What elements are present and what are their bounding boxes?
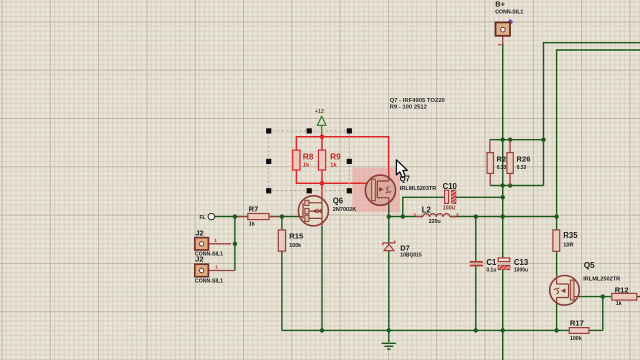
svg-text:1k: 1k bbox=[330, 162, 337, 168]
mouse cursor bbox=[396, 160, 407, 178]
wire Q6 source to ground rail bbox=[321, 226, 323, 331]
svg-text:1k: 1k bbox=[303, 162, 310, 168]
wire FL to Q6 gate bbox=[215, 216, 299, 218]
svg-text:R7: R7 bbox=[249, 205, 259, 214]
selected net (red): +12 rail, R8/R9 parallel, Q7 gate feed, Q6 drain feed bbox=[296, 137, 388, 194]
svg-text:J2: J2 bbox=[195, 255, 203, 264]
svg-text:1k: 1k bbox=[616, 301, 622, 307]
svg-text:R2: R2 bbox=[497, 154, 507, 163]
connector J2 (lower duplicate) bbox=[195, 255, 235, 285]
wire outer bracket to right edge bbox=[544, 43, 640, 186]
wire Q5 gate to R12 and R17 bbox=[579, 297, 640, 331]
resistor R26 bbox=[507, 140, 531, 186]
node FL bbox=[200, 213, 215, 221]
annotation note text bbox=[390, 98, 446, 111]
svg-text:Q5: Q5 bbox=[584, 261, 595, 270]
junction dots (green) bbox=[233, 138, 605, 333]
transistor Q7 IRLML5203TR (tagged) bbox=[365, 173, 436, 205]
resistor R2 bbox=[487, 140, 506, 186]
capacitor C13 bbox=[498, 258, 529, 273]
svg-text:FL: FL bbox=[200, 215, 206, 221]
capacitor C10 bbox=[443, 182, 458, 211]
resistor R8 bbox=[293, 150, 314, 170]
svg-text:0.33: 0.33 bbox=[517, 165, 527, 171]
selection handles and dashed marquee around R8/R9 bbox=[266, 128, 352, 193]
svg-text:R35: R35 bbox=[563, 231, 578, 240]
wire Q5 source to ground rail bbox=[556, 303, 558, 330]
junction dot (red) bottom bbox=[320, 181, 325, 186]
power terminal +12 bbox=[315, 109, 326, 135]
svg-text:1k: 1k bbox=[249, 222, 255, 228]
svg-text:10R: 10R bbox=[563, 243, 573, 249]
resistor R9 bbox=[318, 150, 341, 170]
resistor R15 bbox=[278, 230, 304, 251]
wire inner bracket to right edge bbox=[557, 50, 640, 230]
svg-text:2N7002K: 2N7002K bbox=[333, 207, 357, 213]
svg-text:+12: +12 bbox=[315, 109, 324, 115]
svg-text:Q6: Q6 bbox=[333, 196, 344, 205]
svg-text:220u: 220u bbox=[429, 219, 441, 225]
svg-text:C1: C1 bbox=[486, 258, 497, 267]
wire R2/R26 top rail bbox=[490, 139, 544, 141]
svg-text:1: 1 bbox=[214, 238, 217, 244]
capacitor C1 bbox=[470, 258, 497, 273]
transistor Q5 IRLML2502TR bbox=[550, 261, 621, 305]
svg-text:0.1u: 0.1u bbox=[486, 267, 496, 273]
wire R2/R26 bottom rail bbox=[490, 185, 544, 187]
wire LC node horizontal bbox=[389, 216, 557, 218]
svg-text:R17: R17 bbox=[570, 319, 584, 328]
svg-text:IRLML2502TR: IRLML2502TR bbox=[583, 277, 620, 283]
wire R35 to Q5 drain bbox=[556, 251, 558, 275]
connector J2 (upper) bbox=[195, 229, 231, 258]
wire ground rail bbox=[282, 329, 603, 331]
svg-text:1: 1 bbox=[215, 265, 218, 271]
resistor R7 bbox=[238, 205, 279, 228]
svg-text:L2: L2 bbox=[422, 205, 432, 214]
svg-text:CONN-SIL1: CONN-SIL1 bbox=[195, 279, 223, 285]
resistor R35 bbox=[553, 230, 578, 251]
wire R15 branch to ground rail bbox=[281, 217, 283, 331]
svg-text:R12: R12 bbox=[615, 286, 629, 295]
junction dot (red) top bbox=[320, 134, 325, 139]
ground bbox=[382, 330, 396, 349]
wire C10 bypass bbox=[403, 197, 503, 216]
svg-text:100k: 100k bbox=[570, 336, 582, 342]
svg-text:R26: R26 bbox=[517, 154, 531, 163]
svg-text:100U: 100U bbox=[443, 205, 456, 211]
svg-text:IRLML5203TR: IRLML5203TR bbox=[400, 186, 436, 192]
connector B+ CONN-SIL1 bbox=[495, 0, 523, 45]
svg-text:100k: 100k bbox=[289, 243, 301, 249]
wire B+ net vertical down through C13 to bottom edge bbox=[502, 140, 504, 360]
wire J2 vertical bbox=[234, 217, 236, 271]
svg-text:J2: J2 bbox=[195, 229, 203, 238]
transistor Q6 2N7002K bbox=[298, 194, 356, 226]
svg-text:R9 - 100 2512: R9 - 100 2512 bbox=[390, 105, 428, 111]
svg-text:1000u: 1000u bbox=[514, 267, 528, 273]
resistor R17 bbox=[569, 319, 589, 342]
svg-text:R9: R9 bbox=[330, 152, 341, 162]
wire C1 vertical bbox=[475, 217, 477, 331]
inductor L2 bbox=[414, 205, 460, 225]
wire Q7 drain / D7 / ground rail vertical bbox=[388, 204, 390, 331]
svg-text:B+: B+ bbox=[495, 0, 505, 9]
svg-text:10BQ015: 10BQ015 bbox=[400, 252, 422, 258]
svg-text:C13: C13 bbox=[514, 258, 529, 267]
svg-text:0.33: 0.33 bbox=[497, 165, 507, 171]
svg-text:CONN-SIL1: CONN-SIL1 bbox=[495, 9, 523, 15]
wire B+ vertical to R2/R26 rail bbox=[502, 44, 504, 140]
svg-text:R15: R15 bbox=[289, 231, 304, 240]
diode D7 10BQ015 bbox=[383, 241, 422, 259]
svg-text:Q7 - IRF4905 TO220: Q7 - IRF4905 TO220 bbox=[390, 98, 446, 104]
svg-text:D7: D7 bbox=[400, 243, 409, 252]
resistor R12 bbox=[612, 286, 637, 308]
svg-text:R8: R8 bbox=[303, 152, 314, 162]
tag highlight box around Q7 bbox=[352, 168, 400, 213]
